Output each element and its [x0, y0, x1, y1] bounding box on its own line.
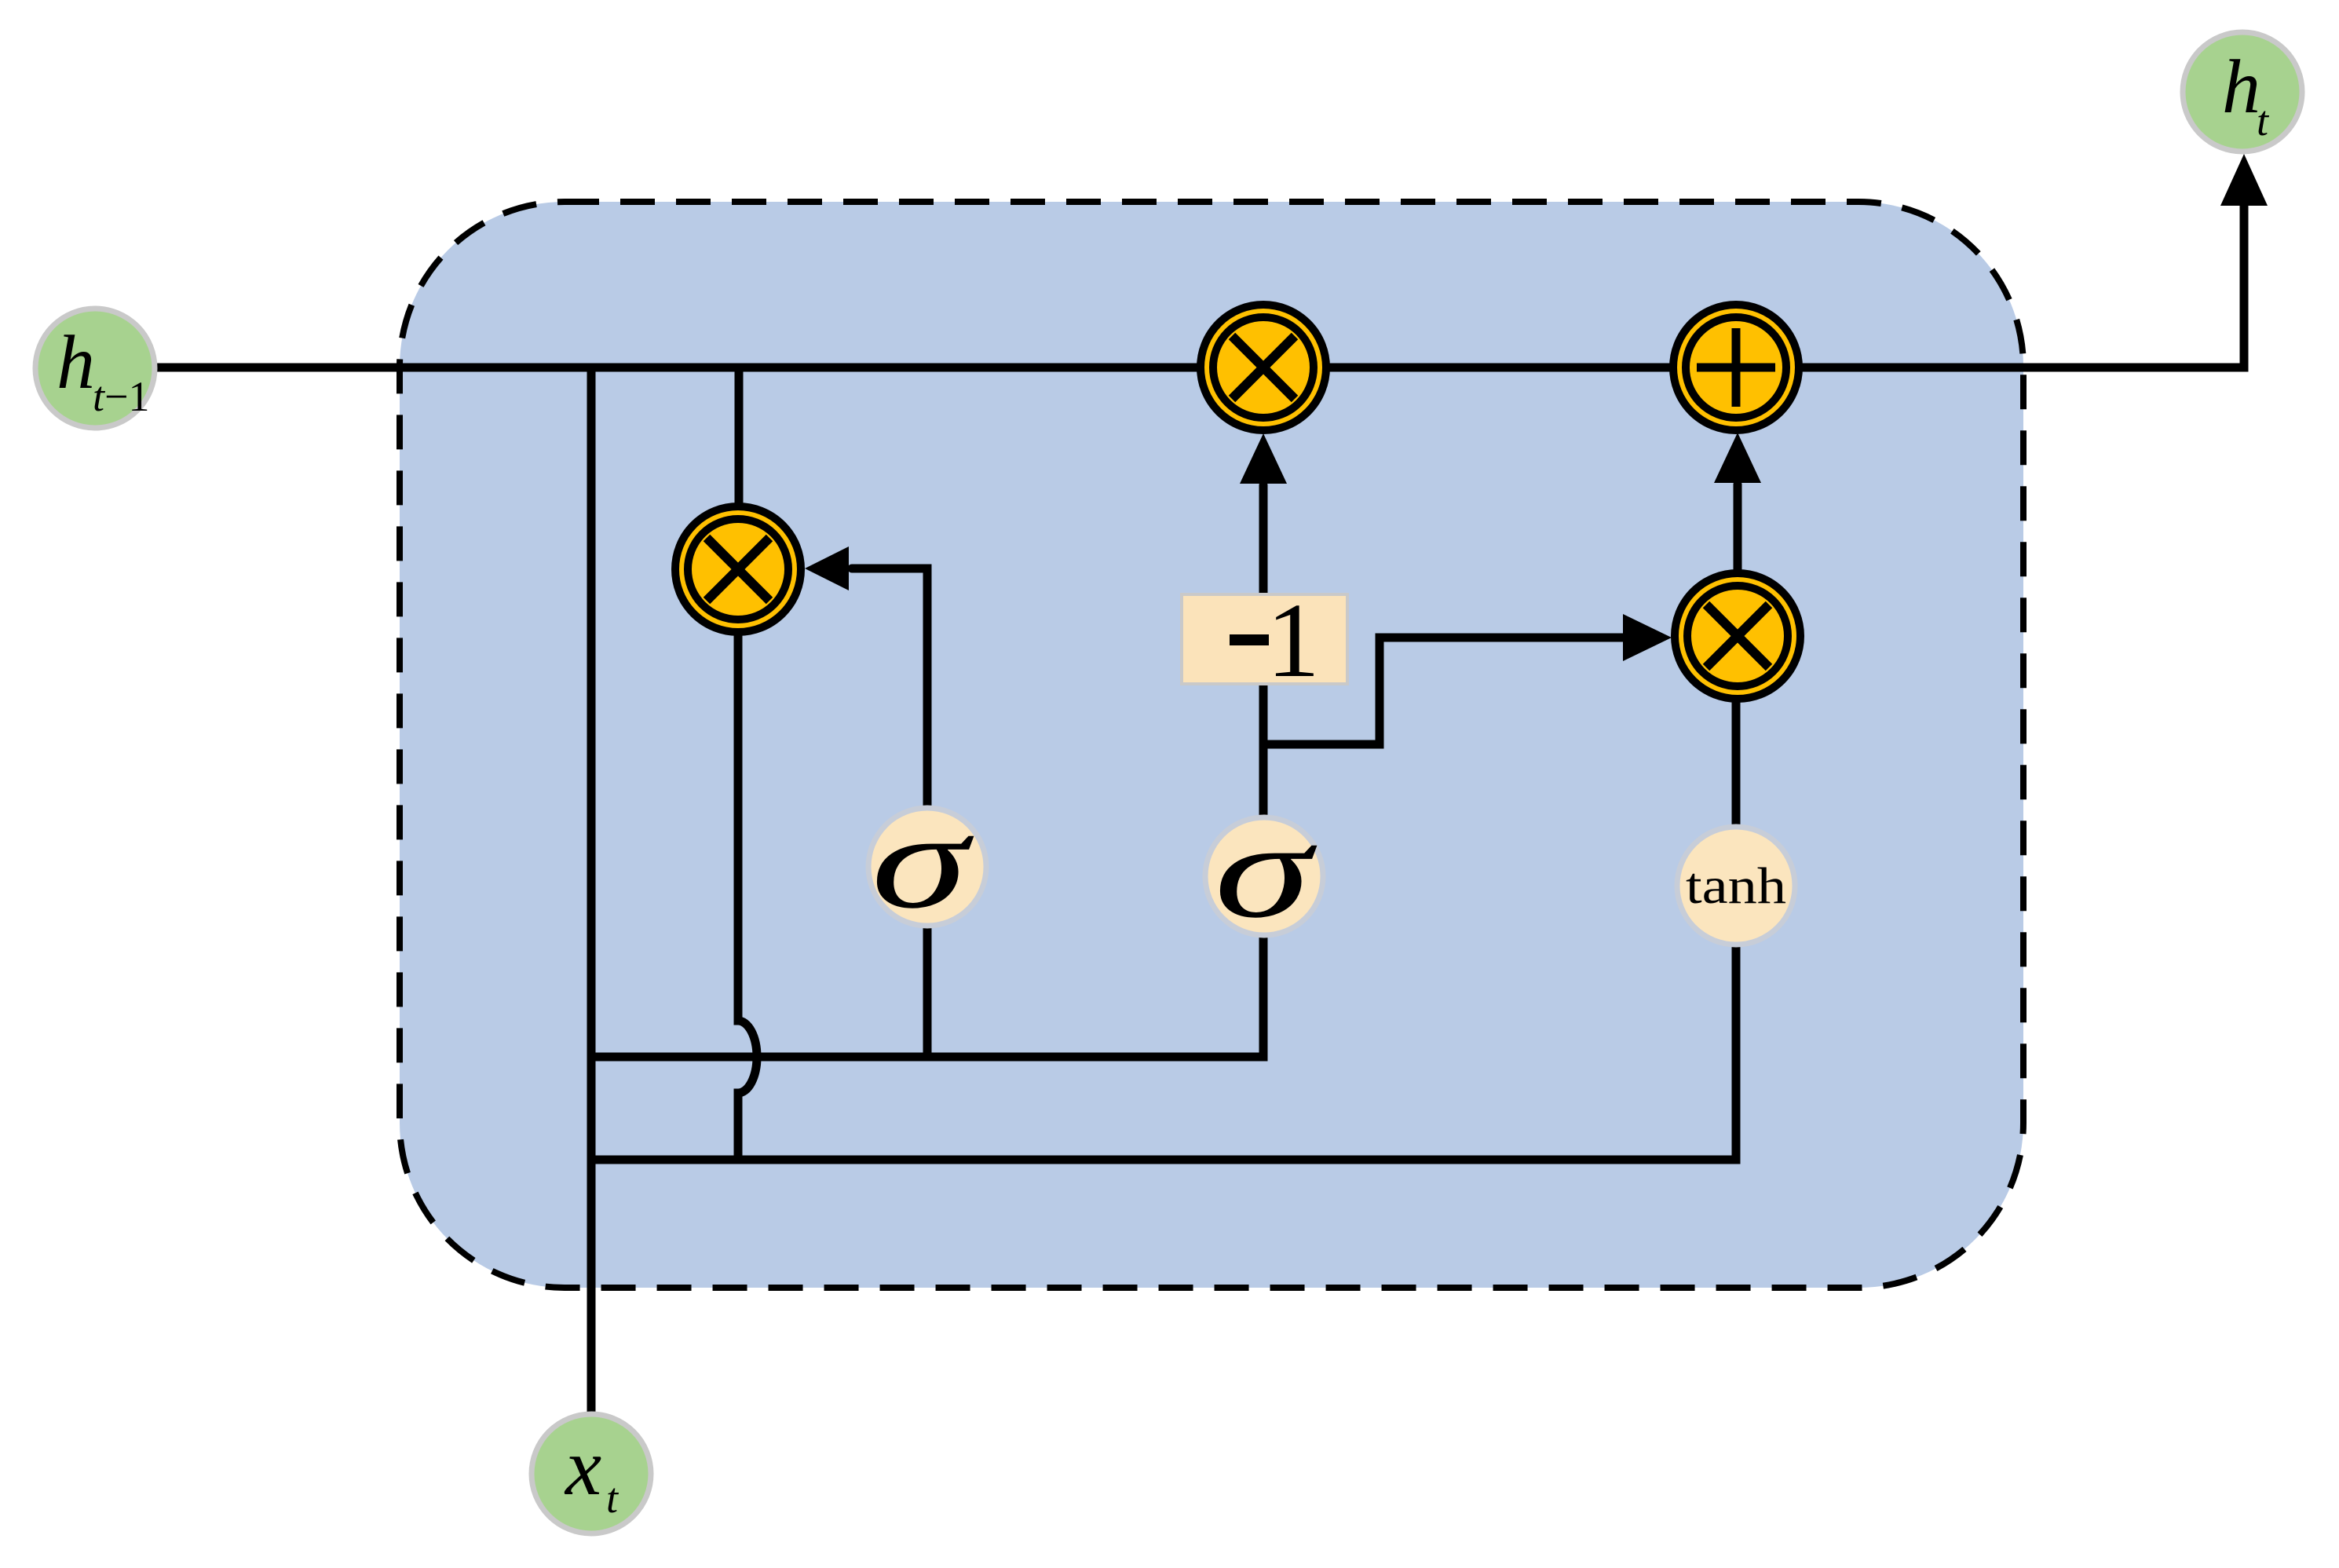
svg-text:t−1: t−1 — [93, 373, 149, 420]
svg-text:σ: σ — [1215, 794, 1318, 946]
svg-text:t: t — [606, 1475, 619, 1522]
svg-text:σ: σ — [872, 784, 974, 937]
svg-text:tanh: tanh — [1686, 857, 1786, 915]
svg-text:t: t — [2257, 97, 2270, 144]
svg-text:h: h — [57, 320, 95, 405]
svg-text:1: 1 — [1266, 582, 1320, 700]
svg-text:h: h — [2222, 45, 2260, 130]
svg-text:x: x — [564, 1422, 601, 1512]
